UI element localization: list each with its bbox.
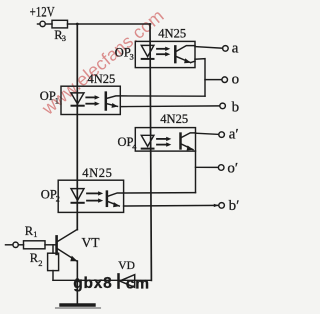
svg-text:cm: cm bbox=[126, 276, 150, 293]
svg-text:4N25: 4N25 bbox=[158, 27, 186, 41]
svg-text:VD: VD bbox=[118, 260, 135, 272]
wire to terminal o' bbox=[196, 166, 219, 168]
label R1 bbox=[25, 224, 38, 239]
terminal o bbox=[222, 77, 228, 83]
junction emitter and bottom wire bbox=[75, 278, 79, 282]
wire left bus bbox=[76, 24, 78, 230]
phototransistor of OP1 bbox=[106, 93, 121, 110]
input terminal at base bbox=[6, 242, 24, 247]
diode VD bbox=[119, 274, 135, 287]
wire to terminal o bbox=[205, 79, 222, 81]
terminal b' bbox=[219, 203, 225, 209]
svg-text:a′: a′ bbox=[229, 127, 239, 143]
svg-text:OP: OP bbox=[118, 135, 134, 149]
label OP2 bbox=[41, 187, 60, 203]
resistor R1 bbox=[24, 241, 46, 249]
svg-text:4N25: 4N25 bbox=[82, 166, 112, 180]
svg-text:b: b bbox=[232, 99, 240, 115]
LED of OP4 bbox=[141, 135, 154, 148]
wire OP1 emitter to terminal b bbox=[120, 105, 219, 108]
svg-text:gbx8: gbx8 bbox=[73, 275, 112, 292]
light arrows of OP2 bbox=[87, 191, 103, 203]
wire emitter to ground bbox=[76, 261, 78, 304]
svg-text:4N25: 4N25 bbox=[160, 112, 188, 126]
wire OP3 emitter loop bbox=[195, 59, 205, 97]
svg-text:o: o bbox=[232, 71, 240, 87]
phototransistor of OP4 bbox=[181, 133, 196, 151]
light arrows of OP1 bbox=[86, 95, 99, 106]
svg-text:a: a bbox=[232, 40, 239, 56]
junction rail to left bus bbox=[76, 23, 79, 26]
label OP1 bbox=[40, 89, 59, 106]
label OP4 bbox=[118, 135, 138, 152]
wire R1 to base bbox=[45, 244, 55, 246]
svg-text:4: 4 bbox=[132, 141, 137, 151]
transistor VT bbox=[57, 229, 78, 261]
wire OP4 emitter loop bbox=[195, 151, 197, 193]
wire OP3 collector to terminal a bbox=[195, 47, 223, 49]
terminal b bbox=[220, 103, 226, 109]
svg-text:3: 3 bbox=[130, 52, 134, 62]
light arrows of OP4 bbox=[157, 137, 171, 147]
wire OP1 collector to OP3 emitter loop bbox=[120, 95, 205, 97]
power terminal +12V bbox=[38, 21, 53, 26]
label OP3 bbox=[115, 45, 134, 61]
phototransistor of OP2 bbox=[107, 192, 124, 208]
svg-text:1: 1 bbox=[33, 229, 37, 239]
label R2 bbox=[30, 251, 43, 268]
optocoupler OP3 box bbox=[135, 41, 195, 67]
resistor R3 bbox=[52, 20, 68, 28]
svg-text:2: 2 bbox=[56, 194, 60, 204]
wire OP2 collector to OP4 emitter loop bbox=[124, 192, 196, 194]
terminal a' bbox=[219, 132, 225, 138]
svg-text:o′: o′ bbox=[227, 160, 238, 176]
optocoupler OP4 box bbox=[135, 128, 195, 152]
svg-text:OP: OP bbox=[115, 45, 131, 59]
svg-text:3: 3 bbox=[62, 33, 66, 43]
svg-text:1: 1 bbox=[55, 95, 59, 105]
watermark www.elecfans.com bbox=[37, 5, 167, 119]
LED of OP3 bbox=[141, 45, 154, 59]
optocoupler OP2 box bbox=[58, 180, 123, 212]
svg-text:4N25: 4N25 bbox=[88, 72, 116, 86]
resistor R2 bbox=[48, 245, 59, 280]
wire bottom (R2 to diode to center bus) bbox=[53, 279, 151, 281]
svg-text:VT: VT bbox=[82, 235, 101, 250]
svg-text:OP: OP bbox=[41, 187, 57, 201]
LED of OP1 bbox=[71, 93, 84, 106]
optocoupler OP1 box bbox=[61, 86, 120, 114]
wire OP4 collector to terminal a' bbox=[196, 133, 219, 134]
phototransistor of OP3 bbox=[175, 46, 195, 64]
label R3 bbox=[54, 28, 66, 43]
svg-text:OP: OP bbox=[40, 89, 56, 103]
ground bbox=[56, 305, 101, 308]
svg-text:b′: b′ bbox=[229, 198, 240, 214]
LED of OP2 bbox=[71, 189, 84, 203]
svg-text:2: 2 bbox=[38, 258, 42, 268]
wire center bus bbox=[150, 24, 151, 280]
svg-text:+12V: +12V bbox=[30, 3, 55, 20]
wire OP2 emitter to terminal b' bbox=[124, 204, 219, 207]
light arrows of OP3 bbox=[157, 47, 170, 57]
wire +12V rail bbox=[68, 23, 151, 25]
terminal a bbox=[223, 46, 229, 52]
terminal o' bbox=[218, 165, 224, 171]
